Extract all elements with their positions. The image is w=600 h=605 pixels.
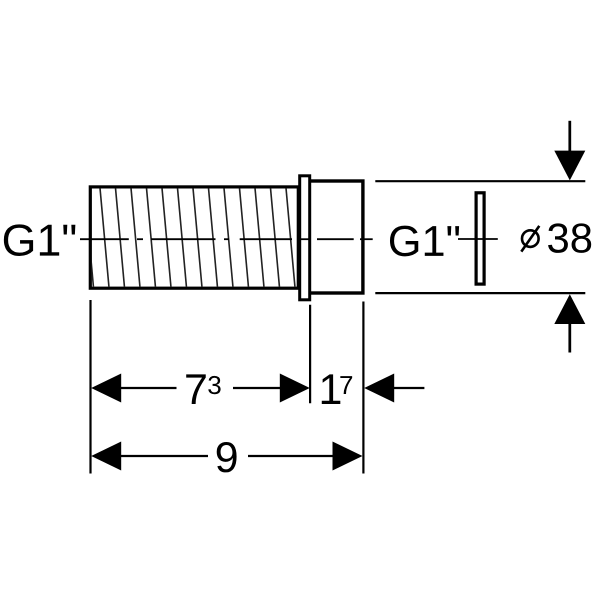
dim 1-7 outside arrowhead	[364, 374, 394, 403]
centerline	[80, 238, 373, 240]
dim 7-3 line left	[120, 387, 177, 389]
seal washer side view	[476, 193, 484, 284]
bottom arrow stem	[568, 324, 571, 353]
superscript 7	[340, 376, 352, 394]
dim 9 line right	[248, 455, 334, 457]
dim 7-3 line right	[233, 387, 281, 389]
top arrowhead down	[554, 151, 585, 181]
top extension line	[375, 180, 585, 182]
dimension value 9	[217, 442, 237, 472]
dimension value 7	[186, 374, 206, 404]
superscript 3	[208, 376, 220, 394]
dim 9 left arrowhead	[91, 442, 121, 471]
dim 9 right arrowhead	[333, 442, 363, 471]
top arrow stem	[568, 121, 571, 151]
dimension value 1	[322, 374, 341, 404]
extension line right	[362, 302, 364, 474]
washer centerline	[458, 238, 498, 240]
extension line mid	[309, 305, 311, 404]
bottom arrowhead up	[554, 294, 585, 324]
dimension value 38	[548, 223, 591, 253]
flange collar	[300, 176, 310, 300]
extension line left	[89, 300, 91, 474]
diameter symbol	[521, 226, 539, 252]
dim 7-3 left arrowhead	[91, 374, 121, 403]
dim 9 line left	[120, 455, 208, 457]
dim 7-3 right arrowhead	[280, 374, 310, 403]
label G1 inch right	[390, 226, 459, 257]
bottom extension line	[375, 292, 585, 294]
dim 1-7 tail line	[393, 387, 424, 389]
thread hatch lines	[85, 188, 296, 288]
threaded pipe body	[90, 187, 298, 288]
smooth outlet section	[304, 181, 363, 293]
label G1 inch left	[4, 224, 76, 256]
